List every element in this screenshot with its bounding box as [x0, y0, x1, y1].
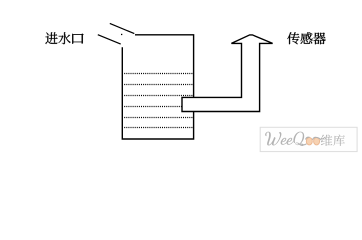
water level dashed line 5	[124, 117, 192, 119]
water level dashed line 1	[124, 73, 192, 75]
sensor pipe and hollow arrow	[182, 35, 273, 112]
watermark orange o1	[306, 138, 312, 145]
watermark oo top stroke	[306, 137, 322, 140]
watermark WeeQ script	[265, 132, 304, 146]
water level dashed line 3	[124, 95, 192, 97]
inlet flap upper line	[110, 23, 135, 33]
water level dashed line 6	[124, 127, 192, 129]
water level dashed line 4	[124, 106, 192, 108]
inlet hinge dot	[121, 34, 122, 35]
label 进水口 (water inlet)	[45, 32, 83, 44]
water tank outline	[122, 35, 193, 139]
watermark orange o2	[314, 138, 320, 145]
water level dashed line 2	[124, 84, 192, 86]
watermark box	[260, 127, 357, 151]
watermark Q tail connector	[302, 144, 307, 145]
label 传感器 (sensor)	[287, 32, 325, 44]
watermark 维库	[321, 134, 345, 146]
inlet flap lower line	[98, 35, 121, 44]
